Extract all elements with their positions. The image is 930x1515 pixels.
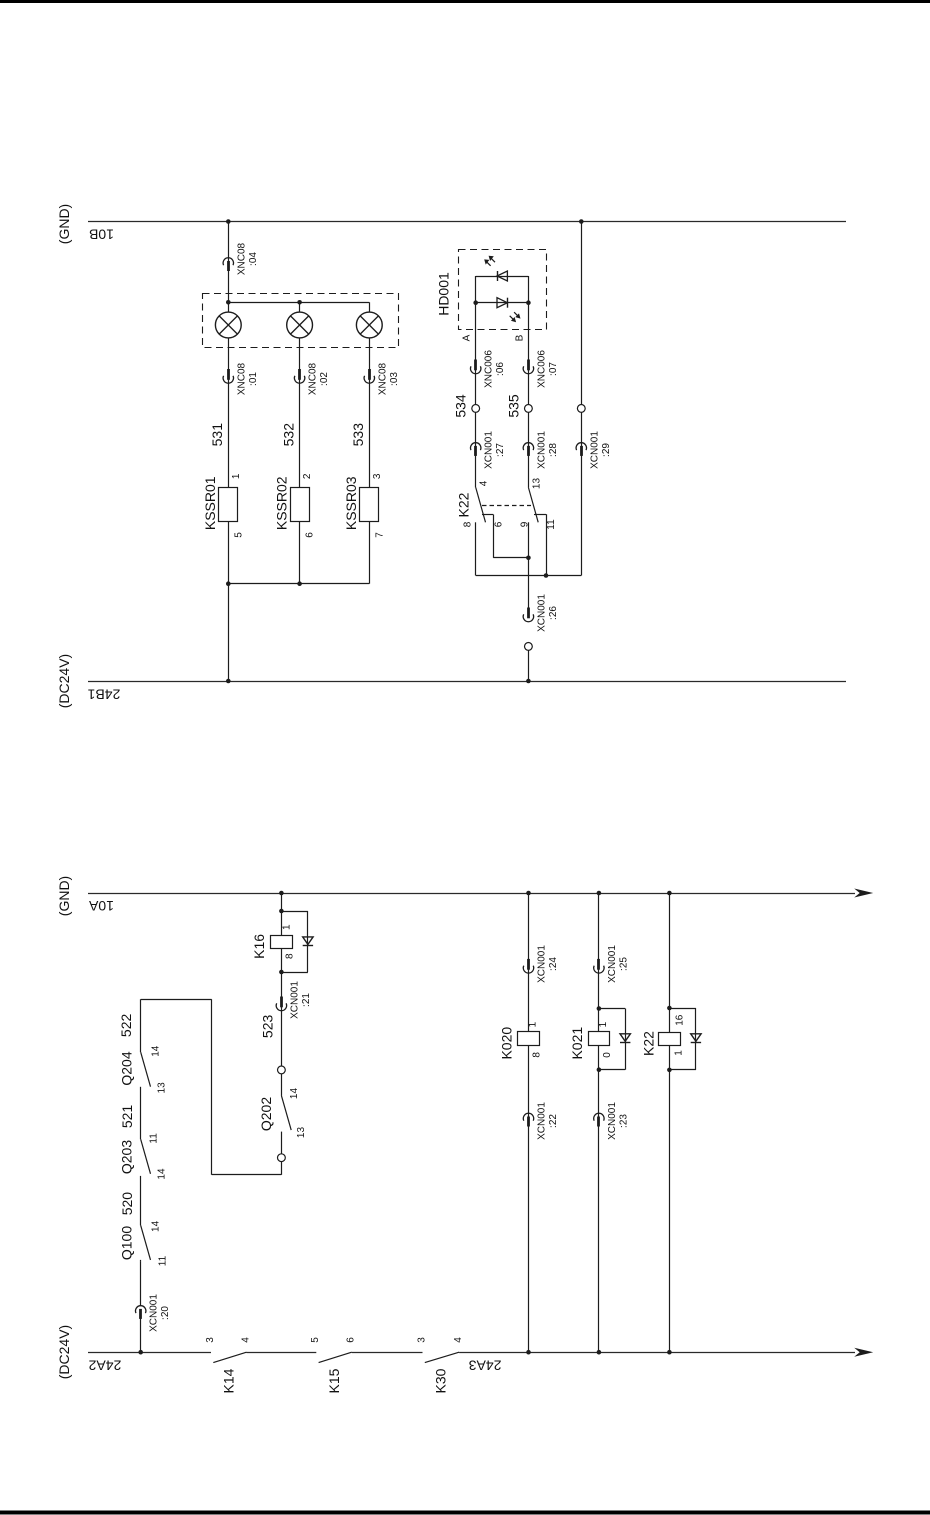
svg-text:13: 13 bbox=[531, 478, 542, 490]
svg-text:10B: 10B bbox=[89, 227, 114, 243]
svg-text:K020: K020 bbox=[499, 1027, 515, 1060]
svg-text:XNC08: XNC08 bbox=[377, 362, 388, 395]
svg-text:1: 1 bbox=[674, 1050, 685, 1056]
svg-text:K22: K22 bbox=[456, 492, 472, 517]
svg-text:5: 5 bbox=[233, 532, 244, 538]
svg-text:2: 2 bbox=[302, 473, 313, 479]
svg-text:XNC006: XNC006 bbox=[484, 350, 495, 388]
svg-text:Q204: Q204 bbox=[119, 1051, 135, 1085]
svg-text::27: :27 bbox=[495, 443, 506, 457]
svg-text::22: :22 bbox=[548, 1114, 559, 1128]
svg-text:HD001: HD001 bbox=[436, 272, 452, 316]
svg-text:14: 14 bbox=[157, 1168, 168, 1180]
svg-text:521: 521 bbox=[119, 1105, 135, 1129]
svg-text:6: 6 bbox=[346, 1337, 357, 1343]
svg-text::29: :29 bbox=[601, 443, 612, 457]
svg-text:14: 14 bbox=[151, 1045, 162, 1057]
svg-text:XCN001: XCN001 bbox=[537, 945, 548, 983]
svg-text:KSSR01: KSSR01 bbox=[202, 476, 218, 530]
svg-text:24A3: 24A3 bbox=[469, 1358, 502, 1374]
svg-text:24A2: 24A2 bbox=[88, 1358, 121, 1374]
svg-text::07: :07 bbox=[548, 362, 559, 376]
svg-text:XCN001: XCN001 bbox=[289, 981, 300, 1019]
svg-text:XNC006: XNC006 bbox=[536, 350, 547, 388]
svg-text:XNC08: XNC08 bbox=[236, 362, 247, 395]
svg-text:(GND): (GND) bbox=[56, 204, 72, 244]
svg-text:14: 14 bbox=[289, 1088, 300, 1100]
svg-text::21: :21 bbox=[301, 993, 312, 1007]
svg-text:5: 5 bbox=[310, 1337, 321, 1343]
svg-text::06: :06 bbox=[495, 362, 506, 376]
svg-text:K021: K021 bbox=[569, 1027, 585, 1060]
svg-text:KSSR03: KSSR03 bbox=[343, 476, 359, 530]
svg-text:4: 4 bbox=[479, 480, 490, 486]
svg-text:522: 522 bbox=[118, 1014, 134, 1038]
svg-text:9: 9 bbox=[520, 521, 531, 527]
svg-text:KSSR02: KSSR02 bbox=[273, 476, 289, 530]
svg-text:8: 8 bbox=[532, 1052, 543, 1058]
svg-text:1: 1 bbox=[528, 1021, 539, 1027]
svg-text:Q100: Q100 bbox=[119, 1226, 135, 1260]
svg-text:520: 520 bbox=[119, 1192, 135, 1216]
svg-text:(DC24V): (DC24V) bbox=[56, 1325, 72, 1379]
svg-text::23: :23 bbox=[618, 1114, 629, 1128]
svg-text:K22: K22 bbox=[641, 1031, 657, 1056]
svg-text:534: 534 bbox=[453, 394, 469, 418]
svg-text::26: :26 bbox=[548, 606, 559, 620]
svg-text:XCN001: XCN001 bbox=[607, 945, 618, 983]
svg-text:Q203: Q203 bbox=[119, 1140, 135, 1174]
svg-text:7: 7 bbox=[374, 532, 385, 538]
svg-text:8: 8 bbox=[463, 521, 474, 527]
svg-text:10A: 10A bbox=[88, 898, 114, 914]
svg-text:13: 13 bbox=[157, 1082, 168, 1094]
svg-text:K15: K15 bbox=[326, 1368, 342, 1393]
svg-text:14: 14 bbox=[151, 1220, 162, 1232]
svg-text:3: 3 bbox=[372, 473, 383, 479]
svg-text:24B1: 24B1 bbox=[87, 687, 120, 703]
svg-text:A: A bbox=[462, 334, 473, 341]
svg-text:11: 11 bbox=[149, 1133, 160, 1144]
svg-text:1: 1 bbox=[231, 473, 242, 479]
svg-text:B: B bbox=[514, 334, 525, 341]
svg-text::01: :01 bbox=[248, 372, 259, 386]
svg-text:535: 535 bbox=[505, 394, 521, 418]
svg-text:3: 3 bbox=[416, 1337, 427, 1343]
svg-text:K16: K16 bbox=[251, 934, 267, 959]
svg-text:XNC08: XNC08 bbox=[236, 242, 247, 275]
svg-text::20: :20 bbox=[160, 1306, 171, 1320]
svg-text:0: 0 bbox=[602, 1052, 613, 1058]
svg-text:XCN001: XCN001 bbox=[537, 1102, 548, 1140]
svg-text:532: 532 bbox=[280, 423, 296, 447]
svg-text:533: 533 bbox=[350, 423, 366, 447]
svg-text:1: 1 bbox=[282, 924, 293, 930]
svg-text:1: 1 bbox=[598, 1021, 609, 1027]
svg-text::03: :03 bbox=[389, 372, 400, 386]
svg-text::02: :02 bbox=[319, 372, 330, 386]
svg-text:(GND): (GND) bbox=[56, 876, 72, 916]
svg-text:XNC08: XNC08 bbox=[308, 362, 319, 395]
svg-text:XCN001: XCN001 bbox=[536, 431, 547, 469]
svg-text:(DC24V): (DC24V) bbox=[56, 654, 72, 708]
svg-text:531: 531 bbox=[209, 423, 225, 447]
svg-text:3: 3 bbox=[205, 1337, 216, 1343]
svg-text:6: 6 bbox=[305, 532, 316, 538]
svg-text::25: :25 bbox=[618, 957, 629, 971]
svg-text:K30: K30 bbox=[433, 1368, 449, 1393]
svg-text:Q202: Q202 bbox=[258, 1097, 274, 1131]
svg-text:XCN001: XCN001 bbox=[484, 431, 495, 469]
svg-text:16: 16 bbox=[675, 1014, 686, 1026]
svg-text:4: 4 bbox=[240, 1337, 251, 1343]
svg-text:XCN001: XCN001 bbox=[149, 1294, 160, 1332]
svg-text::28: :28 bbox=[548, 443, 559, 457]
svg-text:11: 11 bbox=[158, 1255, 169, 1266]
svg-text:XCN001: XCN001 bbox=[607, 1102, 618, 1140]
svg-text:6: 6 bbox=[494, 521, 505, 527]
svg-text:8: 8 bbox=[285, 953, 296, 959]
svg-text:XCN001: XCN001 bbox=[589, 431, 600, 469]
svg-text::24: :24 bbox=[548, 957, 559, 971]
svg-text:4: 4 bbox=[453, 1337, 464, 1343]
svg-text:523: 523 bbox=[260, 1015, 276, 1039]
svg-text:13: 13 bbox=[296, 1127, 307, 1139]
svg-text::04: :04 bbox=[248, 252, 259, 266]
svg-text:K14: K14 bbox=[221, 1368, 237, 1393]
svg-text:11: 11 bbox=[546, 519, 557, 530]
svg-text:XCN001: XCN001 bbox=[536, 594, 547, 632]
